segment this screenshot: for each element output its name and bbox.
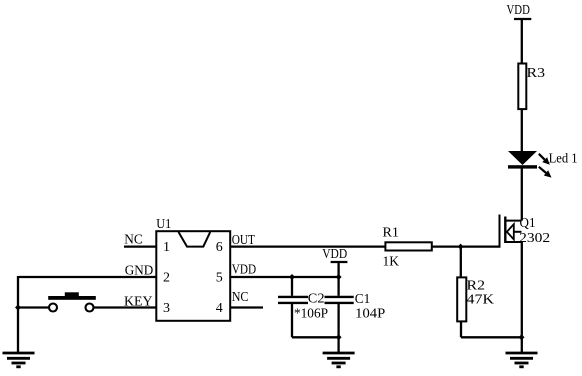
svg-text:C1: C1 (355, 292, 371, 307)
svg-text:R2: R2 (467, 279, 486, 294)
svg-text:6: 6 (216, 240, 223, 255)
svg-text:2302: 2302 (519, 231, 550, 246)
svg-text:5: 5 (216, 271, 223, 286)
svg-text:NC: NC (124, 233, 143, 248)
svg-text:KEY: KEY (124, 294, 153, 309)
svg-text:104P: 104P (355, 307, 385, 322)
svg-text:U1: U1 (156, 217, 171, 232)
svg-text:VDD: VDD (322, 247, 347, 262)
svg-text:OUT: OUT (232, 233, 256, 248)
svg-text:Q1: Q1 (520, 216, 536, 231)
svg-text:VDD: VDD (507, 3, 530, 18)
svg-text:1K: 1K (383, 255, 400, 270)
svg-text:NC: NC (232, 290, 249, 305)
svg-text:R1: R1 (383, 226, 400, 241)
svg-text:GND: GND (125, 263, 154, 278)
svg-text:2: 2 (163, 271, 170, 286)
svg-text:47K: 47K (467, 293, 495, 308)
svg-text:1: 1 (163, 240, 170, 255)
svg-text:3: 3 (163, 301, 170, 316)
svg-text:Led 1: Led 1 (549, 152, 578, 167)
svg-text:VDD: VDD (232, 263, 256, 278)
svg-text:R3: R3 (527, 66, 546, 81)
svg-text:*106P: *106P (294, 307, 328, 322)
svg-text:C2: C2 (308, 291, 325, 306)
svg-text:4: 4 (216, 301, 223, 316)
